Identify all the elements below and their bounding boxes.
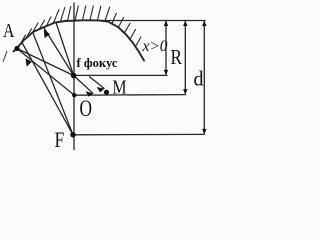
svg-text:A: A — [3, 21, 15, 42]
svg-text:M: M — [113, 77, 127, 99]
svg-text:O: O — [80, 96, 93, 121]
svg-text:f фокус: f фокус — [77, 56, 118, 70]
svg-text:R: R — [171, 45, 183, 69]
svg-text:d: d — [194, 66, 204, 90]
svg-text:F: F — [55, 127, 65, 152]
svg-text:x>0: x>0 — [142, 38, 168, 55]
